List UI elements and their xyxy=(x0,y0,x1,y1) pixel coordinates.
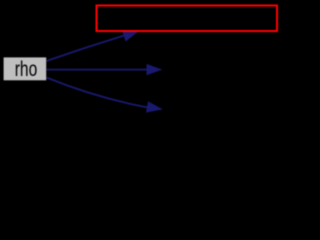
arrowhead top xyxy=(122,30,140,42)
edge rho->top xyxy=(46,36,123,61)
node rho xyxy=(4,57,47,80)
svg-text:rho: rho xyxy=(15,58,38,81)
edge rho->middle xyxy=(47,69,147,71)
arrowhead bottom xyxy=(146,101,163,112)
edge rho->bottom xyxy=(46,78,148,108)
arrowhead middle xyxy=(147,64,163,75)
node (current file, red border) xyxy=(97,6,278,32)
